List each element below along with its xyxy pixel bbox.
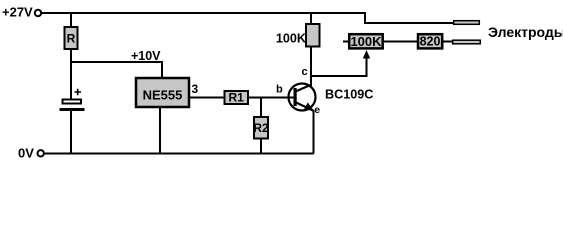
- svg-text:3: 3: [192, 82, 199, 96]
- svg-text:BC109C: BC109C: [325, 88, 373, 102]
- svg-text:c: c: [301, 66, 307, 78]
- svg-text:Электроды: Электроды: [488, 24, 563, 40]
- svg-text:820: 820: [420, 35, 441, 49]
- svg-text:R1: R1: [229, 91, 245, 105]
- svg-text:R2: R2: [253, 121, 269, 135]
- svg-text:R: R: [67, 32, 76, 46]
- svg-text:NE555: NE555: [143, 88, 183, 103]
- svg-text:0V: 0V: [18, 146, 34, 161]
- svg-text:+10V: +10V: [131, 49, 161, 63]
- svg-text:b: b: [276, 84, 283, 96]
- svg-text:100K: 100K: [276, 32, 306, 46]
- svg-text:e: e: [314, 104, 320, 116]
- svg-text:100K: 100K: [350, 34, 382, 49]
- svg-text:+27V: +27V: [2, 5, 33, 20]
